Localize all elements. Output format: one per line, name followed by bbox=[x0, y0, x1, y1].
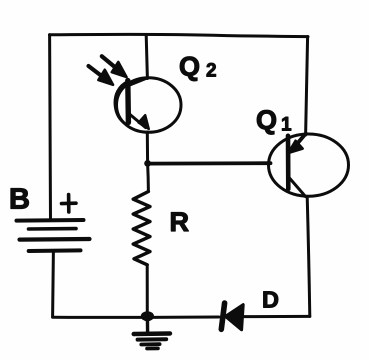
svg-text:D: D bbox=[262, 287, 279, 313]
wire top rail bbox=[50, 34, 309, 36]
svg-text:1: 1 bbox=[281, 115, 292, 136]
transistor Q1 circle bbox=[269, 134, 349, 196]
Q1 arrowhead bbox=[288, 141, 302, 153]
wire bottom rail right (diode to bottom-right corner) bbox=[244, 315, 310, 318]
Q2 collector diagonal bbox=[129, 78, 148, 86]
svg-text:Q: Q bbox=[256, 105, 277, 135]
diode D triangle bbox=[225, 305, 243, 330]
wire Q1 base (junction to Q1) bbox=[148, 161, 271, 165]
wire right rail lower (Q1 emitter to bottom-right corner) bbox=[307, 197, 310, 317]
svg-text:Q: Q bbox=[179, 52, 200, 82]
node ground junction dot bbox=[141, 311, 154, 321]
wire Q2 collector (top rail to Q2) bbox=[146, 35, 147, 78]
ground symbol bbox=[134, 316, 170, 348]
Q2 base bar bbox=[125, 81, 131, 123]
light arrow 2 (lower) bbox=[89, 66, 106, 79]
phototransistor Q2 circle bbox=[117, 78, 182, 133]
light arrow 1 (upper) bbox=[102, 56, 119, 70]
resistor R zigzag bbox=[133, 192, 150, 265]
svg-text:R: R bbox=[170, 207, 190, 237]
Q2 circle overdraw arc (left) bbox=[115, 81, 129, 124]
battery B plate 2 (short) bbox=[29, 227, 77, 231]
Q2 emitter arrowhead bbox=[139, 115, 149, 129]
svg-text:2: 2 bbox=[206, 61, 217, 82]
svg-text:B: B bbox=[9, 184, 30, 216]
Q1 emitter diagonal bbox=[289, 178, 306, 197]
Q2 emitter diagonal with arrow bbox=[129, 114, 146, 128]
diode D cathode bar bbox=[221, 303, 224, 329]
wire bottom rail left (to diode anode) bbox=[53, 316, 219, 319]
wire Q2 emitter to junction bbox=[146, 132, 149, 163]
battery B plate 3 (long) bbox=[20, 237, 90, 242]
Q1 base bar bbox=[286, 136, 291, 189]
wire left rail upper (battery + to top) bbox=[48, 35, 52, 220]
wire junction to resistor top bbox=[146, 163, 150, 191]
wire right rail upper (top rail to Q1 collector) bbox=[306, 37, 308, 135]
Q1 collector diagonal with arrow (points to bar) bbox=[295, 134, 306, 147]
wire left rail lower (battery - to bottom) bbox=[51, 251, 55, 317]
battery B plate 1 (long, +) bbox=[17, 218, 84, 223]
wire resistor bottom to ground junction bbox=[146, 265, 149, 316]
plus sign bbox=[62, 195, 77, 213]
battery B plate 4 (short) bbox=[29, 248, 81, 253]
node junction dot (Q2 emitter / R / Q1 base) bbox=[144, 160, 151, 167]
